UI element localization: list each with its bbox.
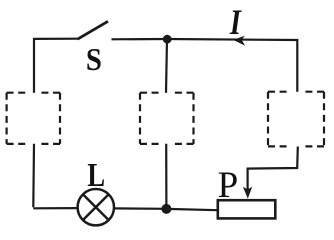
wire middle vertical lower segment bbox=[165, 144, 167, 209]
wire left vertical lower segment bbox=[32, 144, 35, 207]
dashed box 3 (right placeholder) bbox=[268, 92, 324, 147]
wire top-left horizontal with left vertical upper segment bbox=[34, 39, 78, 93]
wire middle vertical upper segment bbox=[166, 39, 167, 93]
svg-text:I: I bbox=[229, 3, 242, 43]
dashed box 1 (left placeholder) bbox=[7, 93, 60, 144]
switch S lever bbox=[78, 21, 109, 39]
lamp L (circle with X) bbox=[78, 189, 114, 225]
rheostat slider arrowhead bbox=[243, 187, 252, 199]
svg-text:S: S bbox=[86, 41, 102, 77]
node junction bottom (lamp / middle branch / rheostat) bbox=[161, 204, 171, 214]
wire switch right contact to top-right corner and right vertical upper segment bbox=[112, 39, 298, 92]
dashed box 2 (middle placeholder) bbox=[140, 93, 194, 144]
rheostat P (slide resistor box) bbox=[218, 200, 275, 218]
wire lamp to bottom junction bbox=[113, 207, 166, 210]
svg-text:L: L bbox=[87, 156, 105, 194]
wire right box bottom to rheostat slider bbox=[248, 147, 298, 191]
svg-text:P: P bbox=[218, 165, 239, 206]
node junction top (at S / middle branch) bbox=[163, 35, 172, 44]
current arrow on top wire bbox=[233, 36, 245, 46]
wire bottom: left corner to lamp bbox=[33, 207, 78, 209]
wire bottom junction to rheostat bbox=[166, 209, 217, 210]
